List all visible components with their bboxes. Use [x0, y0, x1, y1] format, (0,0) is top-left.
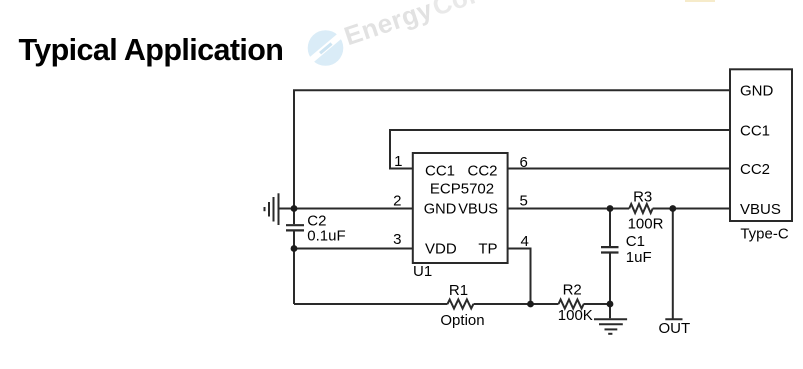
svg-text:OUT: OUT [658, 320, 690, 337]
Type-C connector box [730, 69, 792, 221]
capacitor C1 [601, 209, 619, 305]
svg-text:3: 3 [393, 231, 401, 248]
svg-text:2: 2 [393, 192, 401, 209]
wire: bottom rail left segment to R1 [294, 303, 448, 305]
wire: top GND rail from left vertical to Type-C GND pin [294, 90, 730, 209]
svg-text:R2: R2 [563, 281, 582, 298]
watermark logo disc [306, 30, 345, 66]
node: junction dot VBUS-C1 [607, 205, 614, 212]
svg-text:ECP5702: ECP5702 [430, 180, 494, 197]
svg-text:6: 6 [520, 154, 528, 171]
svg-text:100K: 100K [558, 307, 593, 324]
svg-text:1uF: 1uF [626, 249, 652, 266]
svg-text:VDD: VDD [425, 241, 457, 258]
svg-text:R3: R3 [633, 188, 652, 205]
resistor R1 [448, 300, 474, 309]
svg-text:Core: Core [429, 0, 497, 22]
ground (earth) symbol left [265, 193, 295, 225]
wire: left rail down to bottom rail [293, 249, 295, 305]
svg-text:TP: TP [478, 241, 497, 258]
node: junction dot VBUS-OUT [669, 205, 676, 212]
svg-text:Energy: Energy [340, 0, 436, 51]
wire: R1 to TP junction to R2 [474, 303, 559, 305]
node: junction dot TP bottom [527, 301, 534, 308]
wire: U1 pin4 TP down to bottom rail [508, 249, 531, 305]
svg-text:CC1: CC1 [740, 122, 770, 139]
svg-text:U1: U1 [413, 263, 432, 280]
wire: U1 pin5 VBUS to R3 [508, 208, 630, 210]
svg-text:VBUS: VBUS [458, 201, 498, 217]
node: junction dot ground bottom [607, 301, 614, 308]
svg-text:5: 5 [520, 193, 528, 210]
op IC U1 box [413, 153, 508, 263]
svg-text:CC2: CC2 [740, 161, 770, 178]
node: junction dot left GND [291, 205, 298, 212]
resistor R3 [629, 204, 653, 213]
capacitor C2 [286, 209, 304, 249]
svg-text:GND: GND [424, 201, 456, 217]
svg-text:Type-C: Type-C [740, 226, 789, 243]
svg-text:GND: GND [740, 83, 774, 100]
svg-text:100R: 100R [628, 216, 664, 233]
svg-text:Option: Option [440, 312, 484, 329]
svg-text:CC2: CC2 [467, 162, 497, 179]
svg-text:4: 4 [521, 233, 529, 250]
svg-text:VBUS: VBUS [740, 201, 781, 218]
svg-text:1: 1 [394, 153, 402, 170]
wire: U1 pin2 GND to left junction [294, 208, 413, 210]
wire: OUT stub down from VBUS [665, 209, 682, 320]
svg-text:CC1: CC1 [425, 162, 455, 179]
svg-text:C1: C1 [626, 233, 645, 250]
wire: CC2 rail U1 pin6 to Type-C CC2 [508, 168, 731, 170]
faint yellow smudge top [685, 0, 715, 2]
svg-text:R1: R1 [449, 282, 468, 299]
wire: R3 to Type-C VBUS [653, 208, 730, 210]
ground symbol bottom [594, 304, 627, 334]
node: junction dot VDD left [291, 245, 298, 252]
wire: U1 pin3 VDD to left rail [294, 248, 413, 250]
resistor R2 [559, 300, 584, 309]
wire: R2 to ground junction [584, 303, 611, 305]
watermark text Energy Core [340, 0, 496, 51]
svg-text:Typical Application: Typical Application [19, 33, 284, 67]
svg-text:0.1uF: 0.1uF [307, 227, 345, 244]
wire: CC1 rail from Type-C CC1 down to U1 pin1 [390, 130, 730, 169]
